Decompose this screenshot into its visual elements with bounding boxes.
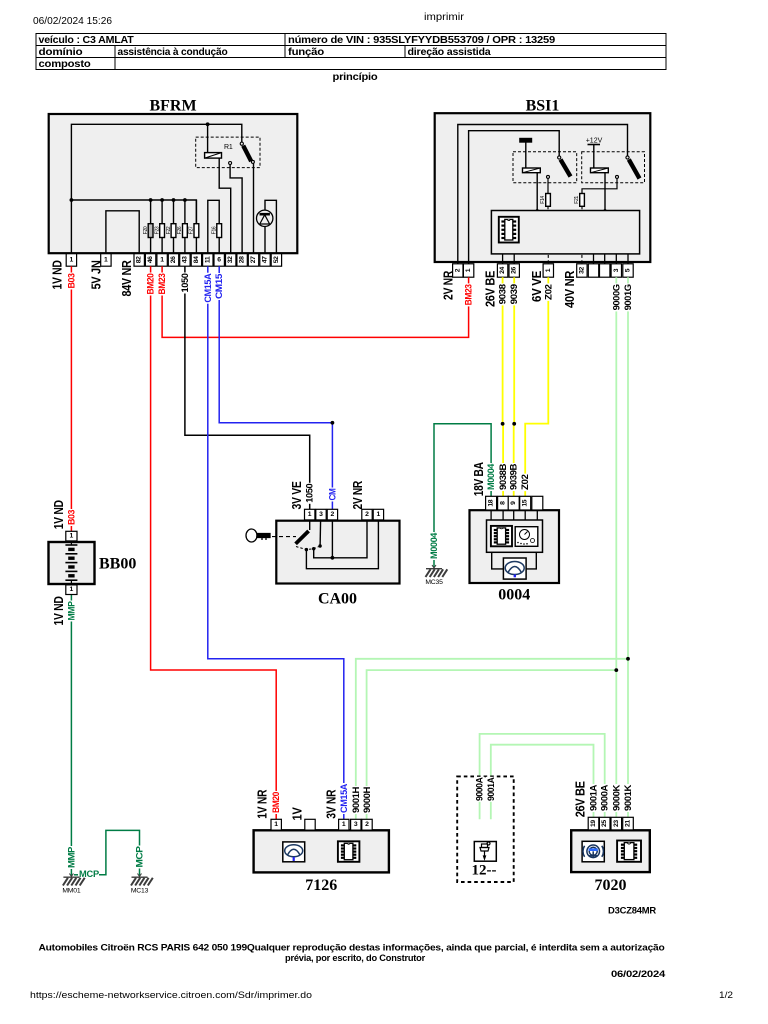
svg-text:B03: B03 [66,510,76,525]
svg-text:B03: B03 [66,273,76,288]
svg-text:82: 82 [136,256,143,263]
7126 pin 1 at x=343.8 [339,819,349,830]
svg-text:F14: F14 [540,196,546,204]
0004 pin 18 at x=491.1 [486,496,497,510]
BFRM pin 47 at x=265.0 [260,254,270,267]
svg-text:06/02/2024 15:26: 06/02/2024 15:26 [33,15,112,27]
svg-text:26V BE: 26V BE [573,781,588,818]
svg-text:2: 2 [365,511,369,518]
BSI1 pin 2 at x=457.8 [453,264,463,277]
svg-text:3: 3 [354,821,358,828]
label MMP below BB00 [67,601,77,622]
label 9038 at BSI1 [498,283,508,305]
svg-text:+12V: +12V [586,138,603,145]
diode symbol in circle [257,210,273,226]
ground MC13 [131,878,153,886]
key symbol [246,529,270,542]
svg-text:84: 84 [193,256,200,263]
BFRM pin 52 at x=276.4 [271,254,281,267]
7020 IC symbol [617,841,641,862]
svg-text:MCP: MCP [135,846,145,867]
svg-text:1: 1 [104,256,108,263]
7020 pin 21 at x=628.0 [623,817,634,830]
svg-text:BFRM: BFRM [149,98,196,115]
relay R1 coil [205,153,222,159]
svg-text:15: 15 [522,499,529,506]
svg-text:BM20: BM20 [271,792,281,813]
label M0004 near MC35 [429,532,439,560]
svg-text:composto: composto [39,59,91,70]
label B03 at BFRM [67,273,77,290]
svg-text:BM23: BM23 [464,284,474,305]
fuse F20 [149,198,153,202]
BSI1 pin (nc) at x=593.5 [588,264,598,277]
svg-text:MC13: MC13 [131,888,149,895]
wire 9000H junction to 7126 pin2 [367,670,617,819]
7020 pin 23 at x=616.3 [611,817,622,830]
svg-text:0004: 0004 [498,587,530,604]
label 9000G at BSI1 [611,283,621,311]
label BM20 at BFRM [146,273,156,296]
fuse F16 loop pin11-pin6 [208,200,219,253]
label 9039B at 0004 [509,463,519,491]
0004 pin 15 at x=525.2 [520,496,531,510]
wire 9000G BSI1 pin3 down to 7020 pin23 (9000K) [615,277,617,817]
7126 motor gauge icon [283,842,305,862]
label 9000A at 7020 [600,784,610,812]
ground MM01 [63,878,85,886]
svg-text:2: 2 [365,821,369,828]
svg-text:F21: F21 [574,196,580,204]
junction mid rail/pin1 wire [70,198,74,202]
svg-text:número de VIN : 935SLYFYYDB553: número de VIN : 935SLYFYYDB553709 / OPR … [288,35,555,46]
svg-text:domínio: domínio [39,47,83,58]
7020 pin 25 at x=604.7 [599,817,610,830]
BFRM internal mid rail [71,200,196,224]
left relay switch lever [558,156,561,159]
7126 pin 1 at x=276.2 [271,819,281,830]
svg-text:M0004: M0004 [486,464,496,490]
svg-text:26V BE: 26V BE [483,270,498,307]
svg-text:9001G: 9001G [623,284,633,310]
relay R1 coil output wire to pin 32 [219,158,231,254]
svg-text:9039: 9039 [509,284,519,304]
BFRM internal supply rail (top) [71,124,241,253]
svg-text:BM23: BM23 [157,273,167,294]
svg-text:18: 18 [488,499,495,506]
svg-text:3: 3 [319,511,323,518]
svg-text:1: 1 [274,821,278,828]
label 1050 at CA00 [305,483,315,504]
BFRM pin 11 at x=207.8 [203,254,213,267]
fuse F23 [160,198,164,202]
junction on top rail to relay coil [206,122,210,126]
svg-text:19: 19 [590,820,597,827]
wire MCP link MM01 area to ground MC13 [99,830,140,876]
svg-text:9001A: 9001A [486,777,496,801]
BFRM pin 84 at x=196.4 [191,254,201,267]
switch travel dashed arc with contacts [296,546,320,550]
svg-text:imprimir: imprimir [424,11,465,23]
svg-text:47: 47 [262,256,269,263]
BFRM pin 82 at x=139.2 [134,254,144,267]
svg-text:CM: CM [327,489,337,501]
svg-text:BM20: BM20 [146,273,156,294]
CA00 pin 3 at x=321.0 [316,509,326,520]
CA00 contact B wire to pin 2 (2V NR) [314,520,367,558]
svg-text:18V BA: 18V BA [471,462,486,497]
svg-text:1: 1 [342,821,346,828]
right relay coil wire to control box [604,173,606,211]
label 9001K at 7020 [623,784,633,812]
left relay dashed box in BSI1 [513,152,577,183]
label BM23 at BFRM [157,273,167,296]
BSI1 rail from pin 1 (BM23) to left relay switch [469,131,560,264]
svg-text:1V ND: 1V ND [51,500,66,529]
svg-text:32: 32 [227,256,234,263]
svg-text:43: 43 [181,256,188,263]
label CM15A at 7126 [339,783,349,814]
BFRM pin 1 at x=105.9 [101,254,111,267]
component 7126 (power steering ECU) [254,830,389,872]
right relay contact [616,175,619,178]
svg-text:9000H: 9000H [362,787,372,813]
CA00 pin 2 at x=367.0 [362,509,372,520]
svg-text:Automobiles Citroën RCS PARIS: Automobiles Citroën RCS PARIS 642 050 19… [39,943,666,953]
BFRM pin 28 at x=242.1 [237,254,247,267]
svg-text:F20: F20 [143,226,149,234]
wire BM23 BFRM pin1(84V) to BSI1 pin1 [162,266,469,337]
fuse F21 [582,178,617,193]
BFRM 5V JN loop wire pin1-pin82 [106,211,139,254]
0004 pin stubs to inner module [490,510,492,520]
0004 gauge needle icon [505,562,524,575]
inline connector dot on 9038 [501,422,505,426]
svg-text:MCP: MCP [79,869,99,879]
label 9000K at 7020 [611,784,621,812]
svg-text:9039B: 9039B [509,463,519,490]
svg-text:1: 1 [308,511,312,518]
relay R1 switch lever [240,142,243,145]
svg-text:9001K: 9001K [623,784,633,811]
left relay coil wire to control box [536,173,538,211]
left relay contact [547,175,550,178]
wire 9038 BSI1 pin24 to 0004 pin8 [502,277,505,496]
relay R1 common contact to pin 27 [251,160,254,163]
svg-text:F27: F27 [189,226,195,234]
BSI1 pin 24 at x=502.6 [497,264,507,277]
svg-text:1050: 1050 [180,273,190,292]
inline connector dot on 9039 [512,422,516,426]
svg-text:2: 2 [331,511,335,518]
svg-text:F23: F23 [154,226,160,234]
svg-text:direção assistida: direção assistida [408,47,491,58]
svg-text:BB00: BB00 [99,556,136,573]
component 0004 (instrument cluster) [470,510,560,583]
svg-text:1: 1 [70,256,74,263]
BSI1 pin 32 at x=581.9 [577,264,587,277]
svg-text:CM15A: CM15A [339,783,349,813]
svg-text:MMP: MMP [66,601,76,620]
connector 12-- dashed box [457,776,514,882]
BFRM pin 6 at x=219.2 [214,254,224,267]
svg-text:6: 6 [217,256,221,263]
svg-text:prévia, por escrito, do Constr: prévia, por escrito, do Construtor [285,953,426,963]
label CM15 at BFRM [214,273,224,300]
7126 pin 3 at x=355.8 [351,819,361,830]
0004 pin (nc) at x=537.3 [532,496,543,510]
label 9038B at 0004 [498,463,508,491]
label Z02 at 0004 [520,474,530,492]
relay R1 dashed box [196,137,260,168]
wire 9001A 7020 pin19 to connector 12-- [491,745,594,820]
svg-text:veículo : C3 AMLAT: veículo : C3 AMLAT [39,35,135,46]
7126 pin (nc) at x=310.0 [305,819,315,830]
svg-text:32: 32 [578,267,585,274]
wire 9001H junction to 7126 pin3 [356,659,628,820]
svg-text:84V NR: 84V NR [119,260,134,297]
svg-text:9000G: 9000G [611,284,621,310]
svg-text:26: 26 [511,267,518,274]
0004 wires to gauge [492,552,504,569]
ignition switch lever [309,520,311,530]
header table [36,34,666,70]
label M0004 at 0004 [486,463,496,491]
right relay coil [591,168,609,173]
svg-text:CM15A: CM15A [203,273,213,303]
svg-text:MM01: MM01 [62,888,81,895]
right relay switch lever [626,156,629,159]
7126 IC symbol [338,841,360,862]
12-- diagnostic plug icon [474,842,496,862]
svg-text:F26: F26 [177,226,183,234]
svg-text:Z02: Z02 [543,284,553,300]
svg-text:26: 26 [170,256,177,263]
component 7020 (steering column module) [571,830,650,872]
BSI1 control box stubs to pins [502,254,504,264]
label 9001G at BSI1 [623,283,633,311]
relay R1 contact to pin 28 [229,162,232,165]
svg-text:MC35: MC35 [425,579,443,586]
label B03 above BB00 [67,509,77,526]
svg-text:7126: 7126 [305,877,337,894]
wire 9001G BSI1 pin5 down to 7020 pin21 (9001K) [627,277,629,817]
svg-text:1: 1 [70,533,74,540]
battery supply bar symbol (left relay feed) [520,138,532,142]
0004 speedometer icon [515,527,538,547]
CA00 contact A wire to pin 1 (2V NR) [306,520,378,569]
0004 pin 8 at x=503.1 [498,496,509,510]
svg-text:1050: 1050 [305,483,315,502]
battery cell symbol [65,542,77,584]
CA00 pin 1 at x=309.7 [305,509,315,520]
svg-text:princípio: princípio [333,72,378,83]
svg-text:1V: 1V [290,807,305,821]
0004 inner module box [487,520,543,552]
BSI1 pin (nc) at x=604.7 [600,264,610,277]
component BB00 (battery) [49,542,95,584]
0004 gauge box [503,558,526,579]
left relay coil [523,168,541,173]
fuse F27 [195,200,197,224]
label BM23 at BSI1 [464,283,474,306]
svg-text:1/2: 1/2 [719,990,733,1000]
svg-text:CM15: CM15 [214,274,224,299]
BSI1 microcontroller IC symbol [499,217,519,243]
BB00 pin 1 (bottom) [66,585,77,595]
BFRM pin 1 at x=162.1 [157,254,167,267]
svg-text:2V NR: 2V NR [441,270,456,300]
CA00 pin 2 at x=332.4 [327,509,337,520]
BFRM pin 1 at x=71.4 [66,254,76,267]
svg-text:MMP: MMP [66,847,76,868]
CA00 pin 1 at x=378.4 [373,509,383,520]
fuse F22 [172,198,176,202]
7020 steering wheel icon [582,841,604,862]
svg-text:F16: F16 [212,226,218,234]
svg-text:CA00: CA00 [318,591,357,608]
svg-text:21: 21 [625,820,632,827]
svg-text:3V NR: 3V NR [324,789,339,819]
svg-text:9000A: 9000A [475,777,485,801]
ground MC35 [426,569,448,577]
BSI1 pin 1 at x=548.3 [543,264,553,277]
label CM15A at BFRM [203,273,213,304]
svg-text:1V ND: 1V ND [51,596,66,625]
svg-text:9038B: 9038B [498,463,508,490]
svg-text:1: 1 [160,256,164,263]
wire M0004 0004 pin18 to ground MC35 [434,424,491,568]
svg-text:1: 1 [70,586,74,593]
junction dot 9000G/9000H [614,668,618,672]
wire CM15A BFRM pin11 to 7126 pin1 [208,266,344,819]
junction CM/contact-B wire [331,556,335,560]
svg-text:06/02/2024: 06/02/2024 [611,969,666,979]
label 1050 at BFRM [180,273,190,294]
svg-text:46: 46 [147,256,154,263]
svg-text:9001H: 9001H [351,787,361,813]
BSI1 pin 1 at x=468.6 [463,264,473,277]
7126 pin 2 at x=367.0 [362,819,372,830]
svg-text:9000A: 9000A [600,784,610,811]
svg-text:23: 23 [613,820,620,827]
svg-text:6V VE: 6V VE [529,270,544,302]
svg-text:2V NR: 2V NR [350,480,365,509]
svg-text:27: 27 [250,256,257,263]
junction dot 9001G/9001H [626,657,630,661]
BB00 pin 1 (top) [66,531,77,541]
wire MMP BB00 to ground MM01 [70,595,72,876]
BFRM pin 26 at x=173.5 [168,254,178,267]
svg-text:5V JN: 5V JN [89,260,104,289]
BSI1 pin 3 at x=616.3 [611,264,621,277]
label Z02 at BSI1 [543,283,553,301]
fuse F14 [547,178,549,193]
svg-text:Z02: Z02 [520,474,530,490]
svg-text:9000K: 9000K [611,784,621,811]
key dashed link line [272,536,296,538]
label MMP at MM01 [67,846,77,869]
BSI1 internal control box [491,211,639,254]
fuse F26 [183,198,187,202]
svg-text:função: função [288,47,324,58]
BSI1 pin 5 at x=628.0 [623,264,633,277]
svg-text:40V NR: 40V NR [562,270,577,308]
label MCP at MC13 [135,846,145,869]
BSI1 pin 26 at x=514.2 [509,264,519,277]
label 9000A at 12-- [475,777,485,802]
0004 IC symbol [491,526,512,546]
right relay dashed box in BSI1 [582,152,645,183]
label 9039 at BSI1 [509,283,519,305]
junction on CM wire at CA00 [331,421,335,425]
svg-text:52: 52 [273,256,280,263]
svg-text:F22: F22 [166,226,172,234]
svg-text:24: 24 [499,267,506,274]
svg-text:11: 11 [204,256,211,263]
7020 pin 19 at x=593.5 [588,817,599,830]
wire CM15 BFRM pin6 to CA00 pin2 [219,266,332,509]
label 9001A at 12-- [486,777,496,802]
CA00 pin3 stub to contact [319,520,322,546]
svg-text:R1: R1 [224,144,233,151]
svg-text:D3CZ84MR: D3CZ84MR [608,906,657,916]
svg-text:https://escheme-networkservice: https://escheme-networkservice.citroen.c… [30,990,312,1000]
component CA00 (ignition switch) [276,521,399,584]
label BM20 at 7126 [271,791,281,814]
label CM at CA00 [327,488,337,502]
wire Z02 BSI1 pin1(6V VE) to 0004 pin15 [525,277,548,496]
svg-text:3V VE: 3V VE [289,481,304,510]
CA00 CM pin stub [331,520,333,558]
svg-text:M0004: M0004 [429,533,439,559]
0004 pin 9 at x=513.7 [508,496,519,510]
wire B03 (battery +) BFRM pin1 to BB00 [70,266,72,531]
svg-text:1V NR: 1V NR [255,789,270,819]
wire 1050 BFRM pin43 to CA00 pin1 [185,266,310,509]
svg-text:1: 1 [377,511,381,518]
label 9000H at 7126 [362,786,372,814]
BFRM pin 27 at x=253.5 [248,254,258,267]
svg-text:assistência à condução: assistência à condução [118,47,228,58]
label 9001H at 7126 [351,786,361,814]
svg-text:7020: 7020 [595,877,627,894]
wire BM20 BFRM pin46 to 7126 [151,266,277,820]
BFRM pin 43 at x=184.9 [180,254,190,267]
svg-text:9001A: 9001A [589,784,599,811]
wire 9039 BSI1 pin26 to 0004 pin9 [513,277,516,496]
diode indicator loop pin47-pin52 [265,200,276,253]
svg-text:12--: 12-- [472,863,497,879]
svg-text:9038: 9038 [498,284,508,304]
BFRM pin 32 at x=230.7 [226,254,236,267]
BSI1 rail from pin 2 to right relay switch [458,125,628,264]
svg-text:28: 28 [239,256,246,263]
BFRM pin 46 at x=150.6 [145,254,155,267]
svg-text:25: 25 [601,820,608,827]
label 9001A at 7020 [589,784,599,812]
svg-text:1V ND: 1V ND [50,260,65,289]
wire 9000A 7020 pin25 to connector 12-- [480,734,605,819]
svg-text:BSI1: BSI1 [526,98,560,115]
